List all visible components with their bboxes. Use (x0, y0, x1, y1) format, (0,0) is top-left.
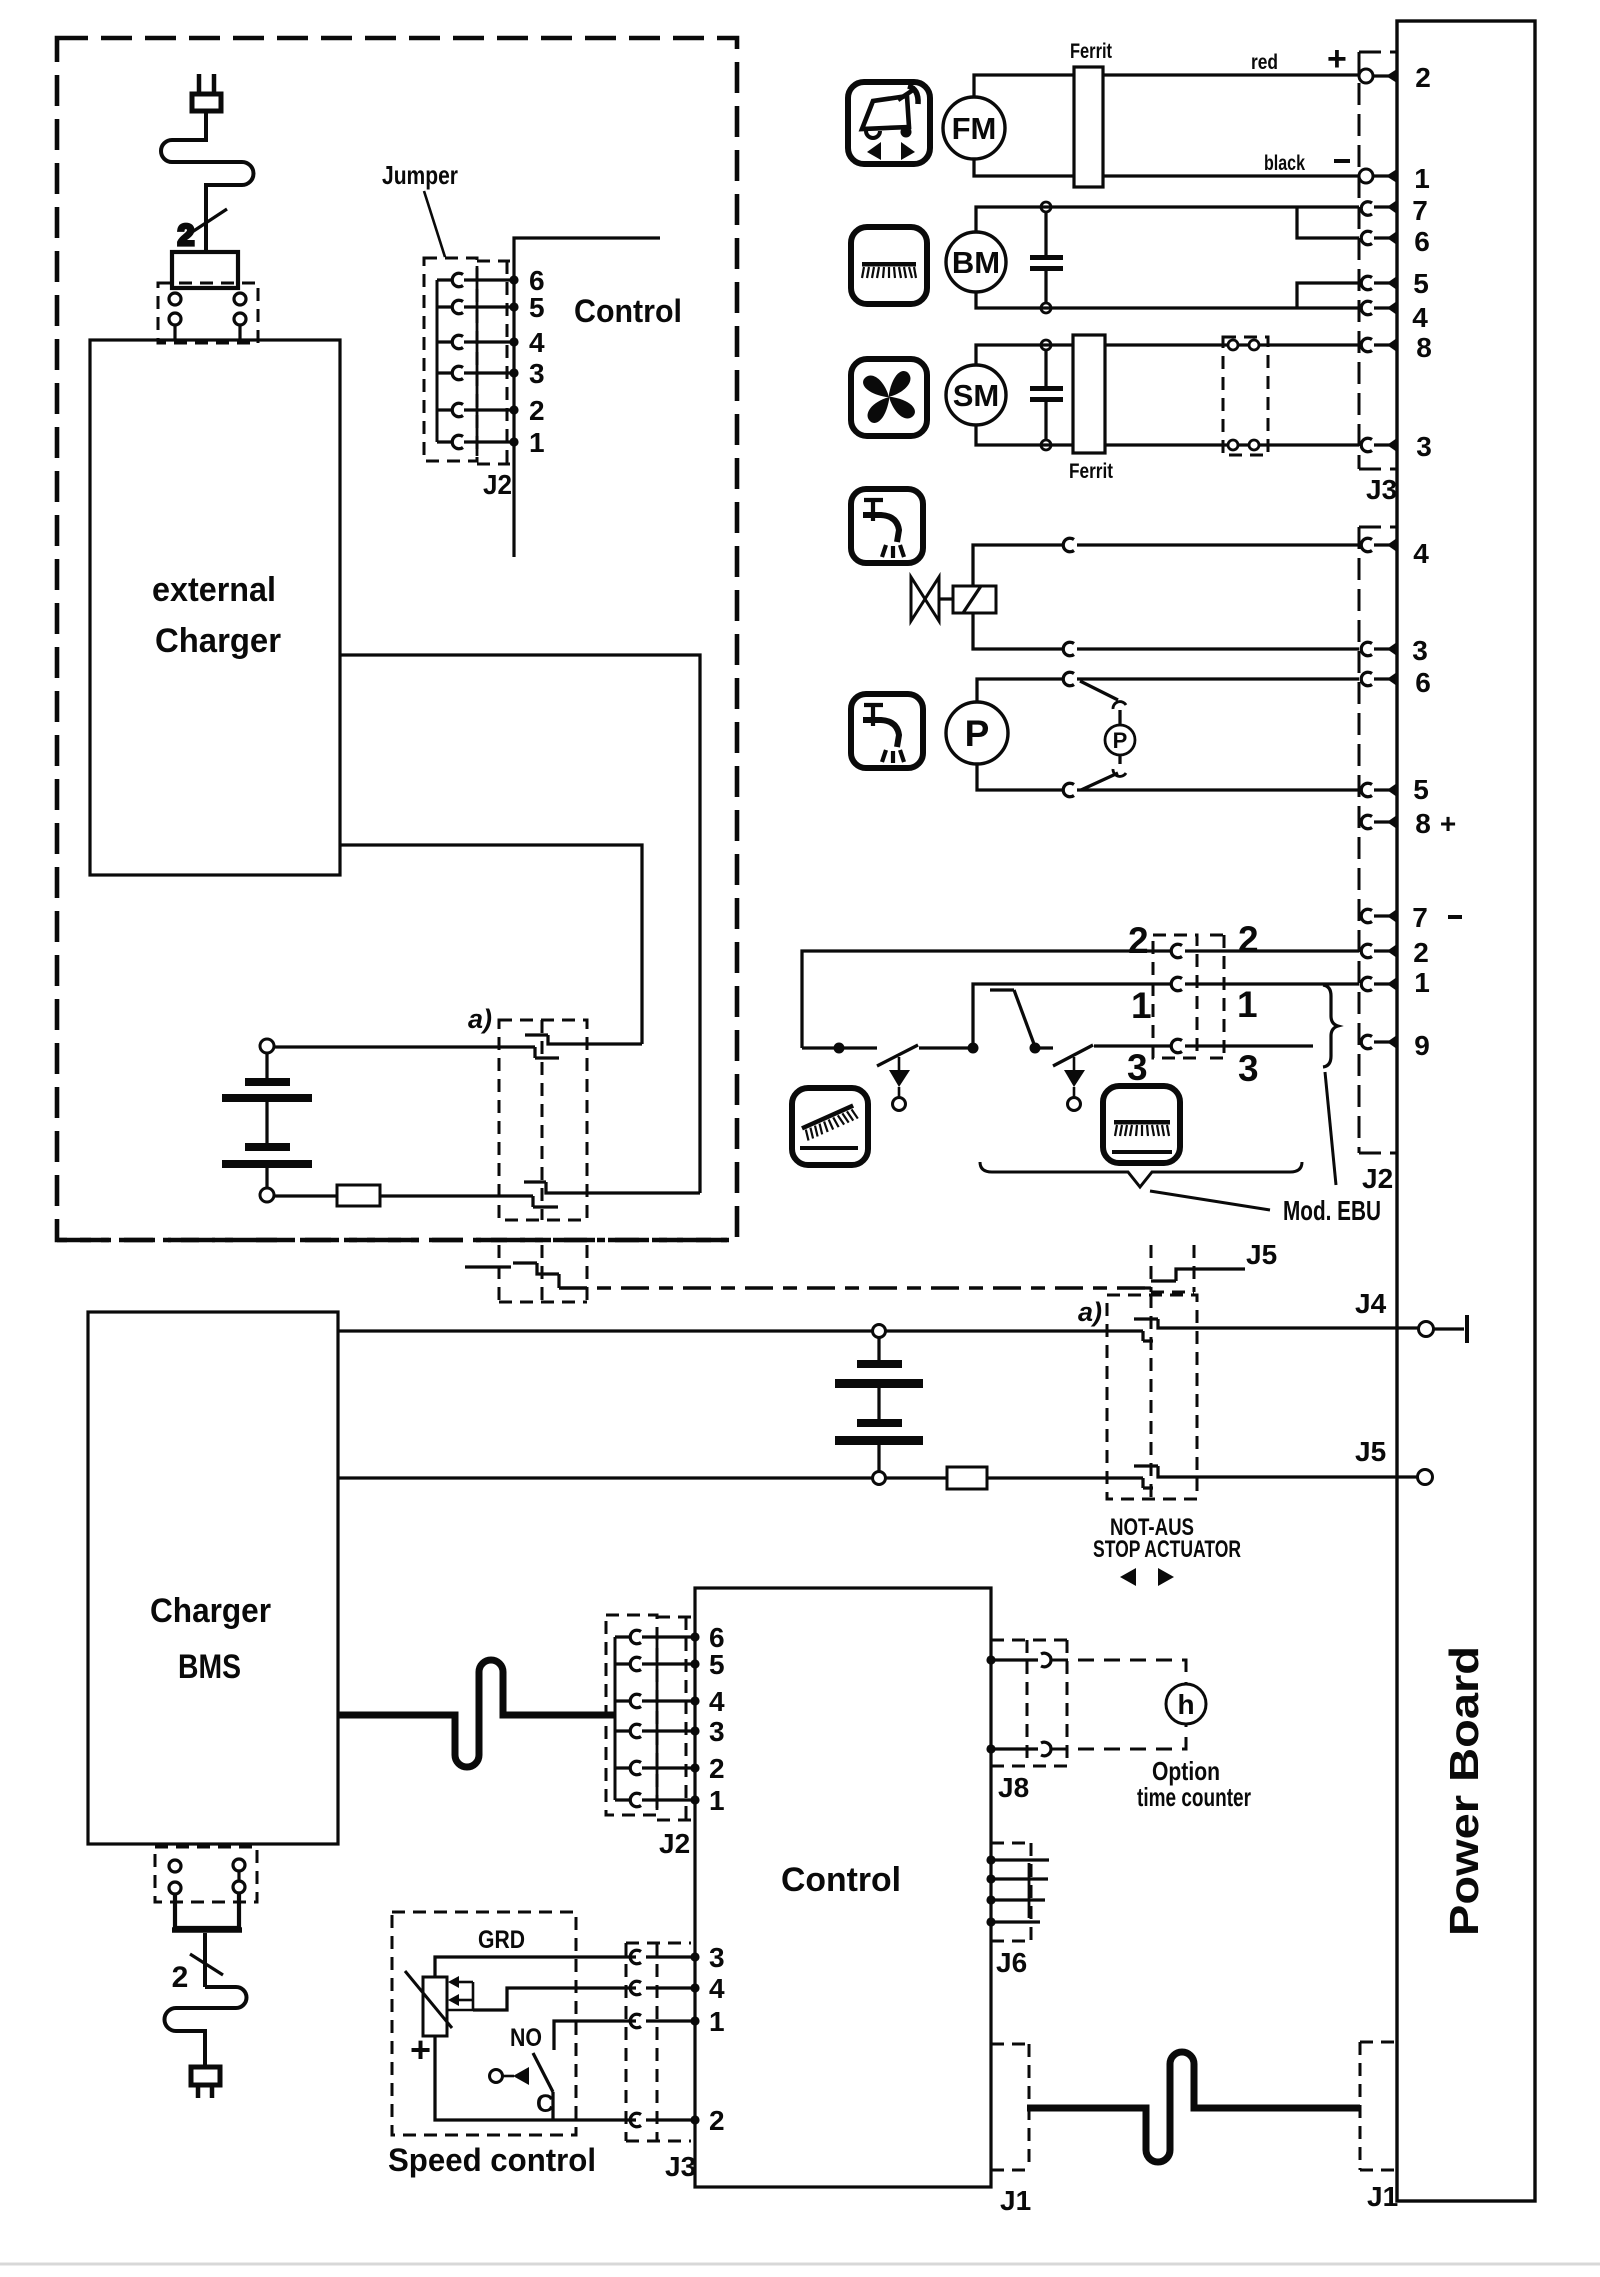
brace grouping EBU pins (1323, 985, 1338, 1067)
svg-text:2: 2 (709, 2105, 725, 2136)
connector Mod EBU plug (dashed) (1153, 935, 1197, 1058)
leader from underbrace to Mod EBU (1150, 1191, 1270, 1210)
svg-text:4: 4 (709, 1686, 725, 1717)
label J3 (control) (665, 2151, 696, 2182)
svg-text:Power Board: Power Board (1441, 1646, 1487, 1936)
inline splice pump upper (1063, 672, 1074, 686)
pump motor P (946, 702, 1008, 764)
inline splice pump lower (1063, 783, 1074, 797)
J2 pin 5 jumper contact (437, 300, 519, 314)
wire: battery+ to switch a (274, 1045, 535, 1048)
svg-text:J3: J3 (665, 2151, 696, 2182)
svg-text:6: 6 (1415, 667, 1431, 698)
Power Board outline (1397, 21, 1535, 2201)
svg-text:red: red (1251, 51, 1278, 74)
2-wire slash mark (BMS cord) (190, 1954, 223, 1975)
icon: brush tilt (burst) (792, 1088, 868, 1165)
icon: scrub brush (851, 227, 927, 304)
label NO (510, 2024, 542, 2052)
label red (1251, 51, 1278, 74)
svg-text:2: 2 (529, 395, 545, 426)
control J2 pin 4 contact (615, 1694, 700, 1708)
connector J6 (dashed) (991, 1843, 1031, 1941)
optional hour counter wiring (dashed) (1052, 1660, 1186, 1749)
wire: fuse F2 to NOT-AUS (987, 1476, 1143, 1479)
EBU contact pin 1 (1171, 977, 1182, 991)
wire: pot bottom / C to J3 pin 2 (435, 2036, 700, 2125)
fuse F1 (337, 1185, 380, 1206)
label - (1334, 159, 1350, 163)
svg-text:1: 1 (1237, 984, 1258, 1025)
J8 pin 1 contact (1041, 1653, 1051, 1667)
label P (965, 713, 990, 754)
switch S2 (interlock) stub and blade (990, 990, 1034, 1044)
pressure switch S4 upper blade (1080, 681, 1126, 725)
label J1 (power board) (1367, 2181, 1398, 2212)
svg-text:P: P (1113, 728, 1128, 753)
J2 pin 9 terminal (board) (1361, 1035, 1397, 1049)
Charger BMS box (88, 1312, 338, 1844)
control J2 pin 1 contact (615, 1793, 700, 1807)
svg-text:time counter: time counter (1137, 1782, 1251, 1812)
connector J2 mating line (control) (656, 1627, 659, 1810)
junction SM lower (1041, 440, 1051, 450)
NOT-AUS pole 2 contact (1134, 1466, 1417, 1488)
label + (1327, 40, 1347, 78)
svg-text:black: black (1264, 152, 1305, 175)
mains plug P1 (192, 74, 221, 111)
wire: SM lower lead to pin 3 (976, 425, 1359, 445)
svg-text:Speed control: Speed control (388, 2142, 596, 2178)
junction BM lower (1041, 303, 1051, 313)
connector J2 socket (dashed) (477, 261, 510, 464)
junction SM upper (1041, 340, 1051, 350)
J2 pin labels on board (1412, 538, 1456, 1061)
J2 pin 2 jumper contact (437, 403, 519, 417)
switch S5 plunger (490, 2067, 530, 2085)
label - (pin 7) (1448, 915, 1462, 919)
svg-text:1: 1 (709, 1785, 725, 1816)
control J3 pin labels (709, 1942, 725, 2136)
svg-text:Charger: Charger (150, 1592, 271, 1630)
pressure switch S4 lower blade (1081, 755, 1126, 790)
wire: pump lower to J2 pin 5 (977, 764, 1359, 790)
svg-text:3: 3 (709, 1942, 725, 1973)
J2 pin 1 terminal (board) (1361, 977, 1397, 991)
J6 pin 3 wire (986, 1895, 1045, 1904)
switch a pole A (battery +) (525, 1035, 642, 1058)
svg-text:Ferrit: Ferrit (1070, 40, 1112, 63)
svg-text:Charger: Charger (155, 622, 281, 660)
external Charger box (90, 340, 340, 875)
Control unit box (bottom) (695, 1588, 991, 2187)
Speed control enclosure (dashed) (392, 1912, 576, 2135)
label J2 (top control) (483, 469, 512, 500)
svg-text:2: 2 (1415, 62, 1431, 93)
J4 terminal circle (1419, 1322, 1434, 1337)
label GRD (478, 1926, 525, 1954)
battery G2 (835, 1338, 923, 1471)
control J2 pin 6 contact (615, 1630, 700, 1644)
wire: pump upper to J2 pin 6 (977, 679, 1359, 702)
label Option time counter (1137, 1756, 1251, 1812)
J2 pin number labels (529, 265, 545, 458)
svg-text:9: 9 (1414, 1030, 1430, 1061)
connector J2 socket dashes (control) (657, 1617, 691, 1820)
icon: flat scrub brush (1103, 1086, 1180, 1163)
mains cord (coiled) (161, 111, 253, 252)
wire: charger output 2 to switch a pole A riser (340, 845, 642, 1044)
battery G1 (222, 1053, 312, 1188)
svg-text:8: 8 (1416, 332, 1432, 363)
junction dot on feed wire (834, 1043, 845, 1054)
inline connector contacts (1228, 340, 1259, 450)
svg-text:+: + (410, 2029, 431, 2070)
svg-text:J5: J5 (1246, 1239, 1277, 1270)
label black (1264, 152, 1305, 175)
jumper plug on control J2 (dashed) (606, 1615, 657, 1815)
ferrite bead on SM leads (1073, 335, 1105, 453)
svg-text:Ferrit: Ferrit (1069, 460, 1113, 483)
svg-text:J6: J6 (996, 1947, 1027, 1978)
connector J3 socket (dashed) (1359, 52, 1397, 469)
svg-text:1: 1 (1414, 163, 1430, 194)
label h (1177, 1689, 1194, 1720)
control J2 pin 2 contact (615, 1761, 700, 1775)
J3 pin 4 terminal (1361, 301, 1397, 315)
hour counter h (1166, 1684, 1206, 1724)
svg-text:4: 4 (1412, 302, 1428, 333)
label a) (468, 1004, 492, 1034)
svg-text:Mod. EBU: Mod. EBU (1283, 1195, 1381, 1226)
svg-text:Control: Control (781, 1861, 901, 1899)
wire: EBU pin 2 feed (802, 951, 1359, 1048)
svg-text:STOP ACTUATOR: STOP ACTUATOR (1093, 1536, 1241, 1563)
svg-text:GRD: GRD (478, 1926, 525, 1954)
faint scanner line at page bottom (0, 2263, 1600, 2266)
svg-text:1: 1 (709, 2006, 725, 2037)
wire: fuse to switch a pole B (380, 1194, 533, 1197)
control J2 pin 3 contact (615, 1724, 700, 1738)
J3 pin 6 terminal (1361, 231, 1397, 245)
BMS outlet socket (dashed) (155, 1847, 257, 1902)
jumper bus bar (control J2) (614, 1637, 617, 1800)
potentiometer wiper arrows (447, 1976, 473, 2010)
label J8 (998, 1772, 1029, 1803)
J3 pin 8 terminal (1361, 338, 1397, 352)
label STOP ACTUATOR (1093, 1536, 1241, 1563)
svg-text:FM: FM (952, 111, 997, 146)
label Control (bottom) (781, 1861, 901, 1899)
svg-text:+: + (1440, 808, 1456, 839)
junction node 2 (1030, 1043, 1041, 1054)
capacitor C2 across SM (1030, 350, 1063, 440)
J2 pin 1 jumper contact (437, 435, 519, 449)
svg-text:J2: J2 (659, 1828, 690, 1859)
label C (536, 2090, 554, 2118)
svg-text:4: 4 (529, 327, 545, 358)
control J2 pin labels (709, 1622, 725, 1816)
potentiometer R1 (405, 1971, 452, 2036)
thick lead BMS to control J2 (coiled) (338, 1660, 615, 1767)
J3 pin 7 terminal (1361, 200, 1397, 215)
J6 pin 1 wire (986, 1855, 1049, 1864)
J6 mating line (1028, 1863, 1031, 1918)
svg-text:1: 1 (1414, 967, 1430, 998)
BMS cord (coiled) (165, 1987, 247, 2067)
J8 pin 1 wire (986, 1655, 1038, 1664)
svg-text:2: 2 (1128, 920, 1149, 961)
connector Mod EBU socket (dashed) (1210, 935, 1224, 1058)
label J2 (control) (659, 1828, 690, 1859)
wire: charger output 1 to switch a pole B riser (340, 655, 700, 1193)
label Power Board (rotated) (1441, 1646, 1487, 1936)
J3 pin 2 terminal (1359, 69, 1397, 83)
fuse F2 (947, 1467, 987, 1489)
connector J2 socket (dashed) (1359, 527, 1397, 1153)
J2 pin 4 terminal (1361, 538, 1397, 552)
wire: NO contact to J3 pin 1 (554, 2016, 700, 2050)
svg-text:P: P (965, 713, 990, 754)
J3 pin 5 terminal (1361, 276, 1397, 290)
svg-text:5: 5 (1413, 774, 1429, 805)
label Speed control (388, 2142, 596, 2178)
wire: Charger BMS + to NOT-AUS (338, 1329, 1143, 1332)
external charger compartment dashed border (57, 38, 737, 1240)
svg-text:2: 2 (709, 1753, 725, 1784)
svg-text:a): a) (1078, 1297, 1102, 1327)
switch a pole B (battery -) (524, 1182, 700, 1207)
NOT-AUS pole 3 contact (to J5) (1145, 1269, 1245, 1288)
svg-text:+: + (1327, 40, 1347, 78)
icon: solution water tap 2 (851, 694, 923, 768)
connector J8 (dashed) (991, 1640, 1067, 1766)
svg-text:4: 4 (709, 1973, 725, 2004)
wire: valve upper to J2 pin 4 (973, 545, 1359, 586)
jumper bus bar (436, 280, 439, 442)
leader line from Jumper label (424, 191, 445, 257)
switch a pole C enclosure (dashed) (499, 1245, 587, 1302)
svg-text:7: 7 (1412, 902, 1428, 933)
J3 pin 3 terminal (1361, 438, 1397, 452)
control J2 pin 5 contact (615, 1657, 700, 1671)
svg-text:NO: NO (510, 2024, 542, 2052)
battery G2 positive node (873, 1325, 886, 1338)
svg-text:3: 3 (1127, 1047, 1148, 1088)
svg-text:C: C (536, 2090, 554, 2118)
label FM (952, 111, 997, 146)
NOT-AUS pole 3 enclosure (dashed) (1151, 1245, 1194, 1292)
control J3 contacts (630, 1950, 641, 2127)
J6 pin 2 wire (986, 1874, 1048, 1883)
svg-text:1: 1 (1131, 985, 1152, 1026)
label NOT-AUS (1110, 1514, 1194, 1541)
label Ferrit (1070, 40, 1112, 63)
label Jumper (382, 160, 458, 190)
wire: GRD to J3 pin 3 (435, 1952, 700, 1977)
J4 terminal blade (1434, 1315, 1467, 1343)
label BM (952, 245, 1000, 280)
svg-text:J8: J8 (998, 1772, 1029, 1803)
connector J1 on control (dashed) (991, 2044, 1029, 2170)
wire: battery- to fuse (274, 1194, 337, 1197)
connector contact circles (169, 293, 246, 340)
switch S3 (brush) blade (1053, 1045, 1093, 1066)
switch a) enclosure (dashed) (499, 1020, 587, 1220)
svg-text:2: 2 (1413, 937, 1429, 968)
svg-text:2: 2 (1238, 919, 1259, 960)
EBU pin labels (1127, 919, 1259, 1089)
J2 pin 3 terminal (1361, 642, 1397, 656)
switch S5 (speed) blade (533, 2053, 553, 2092)
J2 pin 7 terminal (1361, 909, 1397, 923)
label Charger BMS (150, 1592, 271, 1686)
2-wire slash mark (186, 209, 227, 236)
label J3 (1366, 474, 1397, 505)
wire: SM upper lead to pin 8 (976, 345, 1359, 365)
wire: BM upper lead to pins 7/6 (976, 207, 1359, 232)
J2 pin 4 jumper contact (437, 335, 519, 349)
EBU contact pin 2 (1171, 944, 1182, 958)
ferrite bead on FM leads (1074, 67, 1103, 187)
motor FM (traction) (943, 97, 1005, 159)
J2 pin 6 jumper contact (437, 273, 519, 287)
BMS plug body (172, 1893, 242, 1930)
svg-text:2: 2 (178, 219, 195, 252)
icon: squeegee lift machine (848, 82, 930, 164)
label J5 (board) (1355, 1436, 1386, 1467)
J2 pin 2 terminal (board) (1361, 944, 1397, 958)
label J6 (996, 1947, 1027, 1978)
label J4 (1355, 1288, 1387, 1319)
J8 pin 2 contact (1041, 1742, 1051, 1756)
label a) (NOT-AUS) (1078, 1297, 1102, 1327)
svg-text:external: external (152, 571, 276, 609)
svg-text:h: h (1177, 1689, 1194, 1720)
icon: vacuum fan (851, 359, 927, 436)
underbrace below switches (980, 1162, 1302, 1187)
svg-text:BMS: BMS (178, 1648, 241, 1686)
J2 pin 8 terminal (1361, 815, 1397, 829)
label SM (953, 378, 1000, 413)
svg-text:5: 5 (529, 292, 545, 323)
svg-text:3: 3 (1238, 1048, 1259, 1089)
J2 pin 3 jumper contact (437, 366, 519, 380)
svg-text:a): a) (468, 1004, 492, 1034)
svg-text:J2: J2 (483, 469, 512, 500)
svg-text:Jumper: Jumper (382, 160, 458, 190)
svg-text:3: 3 (709, 1716, 725, 1747)
svg-text:J2: J2 (1362, 1163, 1393, 1194)
svg-text:4: 4 (1413, 538, 1429, 569)
label 2 (BMS cord) (172, 1961, 189, 1994)
svg-text:5: 5 (1413, 268, 1429, 299)
svg-text:5: 5 (709, 1649, 725, 1680)
wire: S1 to junction (919, 1046, 973, 1049)
svg-text:3: 3 (1412, 635, 1428, 666)
svg-text:2: 2 (172, 1961, 189, 1994)
EBU contact pin 3 (1171, 1039, 1182, 1053)
battery G2 negative node (873, 1472, 886, 1485)
label Control (top) (574, 293, 682, 329)
cord from BMS plug (203, 1933, 207, 1987)
wire: feed to brush tilt switch (802, 1046, 877, 1049)
wire: branch to pin 5 (1297, 283, 1359, 308)
thick lead control J1 to power board J1 (coiled) (1027, 2052, 1360, 2162)
svg-text:J3: J3 (1366, 474, 1397, 505)
compartment bottom divider (dash-dot) (57, 1238, 737, 1243)
J2 pin 6 terminal (1361, 672, 1397, 686)
wire: branch to pin 6 (1297, 207, 1359, 238)
svg-text:SM: SM (953, 378, 1000, 413)
pressure switch P sensor (1105, 725, 1135, 755)
label external Charger (152, 571, 281, 660)
wire: Charger BMS - lead (338, 1476, 872, 1479)
label J1 (control) (1000, 2185, 1031, 2216)
junction node (968, 1043, 979, 1054)
battery G1 negative terminal (260, 1188, 274, 1202)
motor BM (brush) (946, 232, 1006, 292)
svg-text:8: 8 (1415, 808, 1431, 839)
svg-text:J1: J1 (1367, 2181, 1398, 2212)
connector J3 socket (dashed, control) (626, 1943, 691, 2141)
inline connector on SM leads (dashed) (1223, 337, 1268, 455)
wire: EBU pin 1 feed (973, 984, 1359, 1048)
J3 pin labels on board (1412, 62, 1432, 462)
junction BM upper (1041, 202, 1051, 212)
svg-text:J4: J4 (1355, 1288, 1387, 1319)
label Mod. EBU (1283, 1195, 1381, 1226)
label P (sensor) (1113, 728, 1128, 753)
label + (speed control) (410, 2029, 431, 2070)
BMS mains plug (191, 2067, 220, 2098)
connector J1 on power board (dashed) (1360, 2042, 1397, 2170)
J5 terminal circle (1418, 1470, 1433, 1485)
label J5 (interlock contact) (1246, 1239, 1277, 1270)
svg-text:J1: J1 (1000, 2185, 1031, 2216)
wire: junction to S3 (1035, 1046, 1053, 1049)
inline splice on valve - wire (1063, 642, 1074, 656)
J6 pin 4 wire (986, 1917, 1040, 1926)
switch S1 actuator arrow (889, 1057, 910, 1111)
connector J2 mating line (476, 266, 479, 456)
capacitor C1 across BM (1030, 212, 1063, 303)
BMS connector contact circles (169, 1859, 245, 1894)
wire: FM + lead (red) (974, 75, 1359, 97)
svg-text:6: 6 (1414, 226, 1430, 257)
charger inlet socket (dashed) (158, 283, 258, 343)
svg-text:J5: J5 (1355, 1436, 1386, 1467)
svg-text:BM: BM (952, 245, 1000, 280)
label J2 (power board) (1362, 1163, 1393, 1194)
wire: valve lower to J2 pin 3 (973, 613, 1359, 649)
wire: wiper to J3 pin 4 (473, 1983, 700, 2010)
wire: battery- to fuse F2 (886, 1476, 947, 1479)
NOT-AUS switch enclosure (dashed) (1107, 1295, 1197, 1499)
solenoid valve Y1 (water) (911, 577, 996, 621)
Control unit outline (top) (514, 238, 660, 557)
switch a pole C (interlock) (465, 1263, 559, 1288)
svg-text:1: 1 (529, 427, 545, 458)
motor SM (suction) (946, 365, 1006, 425)
svg-text:3: 3 (1416, 431, 1432, 462)
label 2 (wire count) (178, 219, 195, 252)
icon: solution water tap 1 (851, 489, 923, 563)
wire: FM - lead (black) (974, 159, 1359, 176)
wire: EBU pin 3 (1094, 1044, 1313, 1047)
J3 pin 1 terminal (1359, 169, 1397, 183)
wire: C contact down (551, 2092, 554, 2120)
